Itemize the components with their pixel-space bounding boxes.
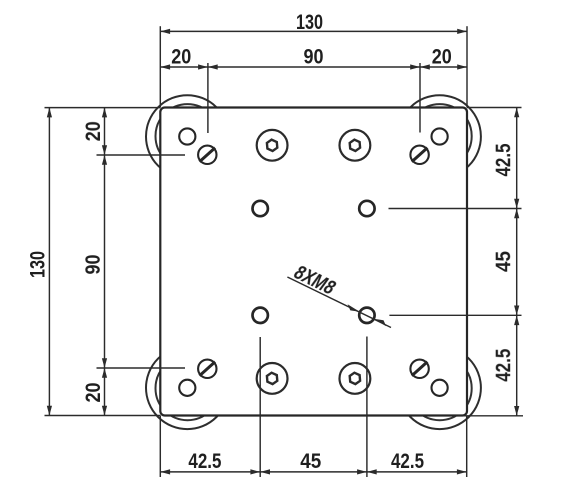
socket head screw bottom-left: [257, 363, 288, 394]
svg-text:42.5: 42.5: [492, 348, 515, 381]
extension line bottom-left corner: [159, 416, 161, 478]
leader line 8XM8: [287, 277, 391, 328]
socket head screw bottom-right: [340, 363, 371, 394]
svg-text:90: 90: [82, 255, 105, 275]
extension line bottom col 45/42.5: [366, 337, 368, 478]
extension line top-right corner: [466, 26, 468, 107]
extension line left row 20/90: [97, 154, 186, 156]
arrowheads 20/90/20 left: [102, 108, 107, 118]
extension line bottom-right corner: [466, 416, 468, 478]
extension line left bottom corner: [45, 415, 161, 417]
corner hole bottom-left: [179, 380, 195, 396]
svg-text:42.5: 42.5: [188, 450, 221, 473]
dimension line 42.5/45/42.5 right: [516, 108, 518, 416]
arrowheads 42.5/45/42.5 bottom: [160, 469, 170, 474]
extension line left row 90/20: [97, 367, 186, 369]
slotted screw bottom-left: [198, 360, 216, 378]
svg-text:45: 45: [300, 450, 321, 473]
dimension line 42.5/45/42.5 bottom: [160, 471, 466, 473]
caster wheel bottom-right: [398, 347, 481, 430]
arrowheads 20/90/20 top: [160, 64, 170, 69]
arrowheads 130 top: [160, 29, 170, 34]
svg-text:42.5: 42.5: [391, 450, 424, 473]
extension line right row 45/42.5: [389, 314, 521, 316]
extension line left top corner: [45, 107, 161, 109]
dimension line 130 top: [160, 30, 467, 32]
mounting plate body: [160, 108, 467, 416]
svg-text:20: 20: [82, 383, 105, 403]
M8 hole upper-left: [253, 201, 268, 216]
corner hole bottom-right: [432, 380, 448, 396]
M8 hole lower-left: [253, 308, 268, 323]
svg-text:130: 130: [27, 251, 50, 278]
caster wheel top-left: [146, 95, 229, 178]
extension line top col 20/90 left: [207, 63, 209, 133]
extension line right bottom: [458, 415, 523, 417]
extension line bottom col 42.5/45: [259, 337, 261, 477]
arrowheads leader 8XM8: [348, 304, 360, 311]
caster wheel top-right: [398, 95, 481, 178]
M8 hole lower-right: [359, 308, 374, 323]
svg-text:20: 20: [432, 46, 452, 69]
arrowheads 130 left: [47, 108, 52, 118]
slotted screw top-left: [198, 146, 216, 164]
corner hole top-right: [432, 128, 448, 144]
extension line right top: [467, 107, 522, 109]
extension line top col 90/20 right: [419, 63, 421, 133]
dimension line 20/90/20 left: [104, 108, 106, 416]
svg-text:90: 90: [304, 46, 324, 69]
slotted screw bottom-right: [410, 360, 428, 378]
socket head screw top-left: [257, 130, 288, 161]
svg-text:20: 20: [82, 121, 105, 141]
dimension line 20/90/20 top: [160, 66, 467, 68]
svg-text:130: 130: [296, 11, 323, 34]
arrowheads 42.5/45/42.5 right: [514, 108, 519, 118]
svg-text:42.5: 42.5: [492, 143, 515, 176]
caster wheel bottom-left: [146, 347, 229, 430]
extension line top-left corner: [159, 26, 161, 107]
socket head screw top-right: [340, 130, 371, 161]
M8 hole upper-right: [359, 201, 374, 216]
svg-text:20: 20: [171, 46, 191, 69]
slotted screw top-right: [410, 146, 428, 164]
svg-text:45: 45: [492, 251, 515, 272]
corner hole top-left: [179, 128, 195, 144]
dimension line 130 left: [48, 108, 50, 416]
extension line right row 42.5/45: [389, 208, 522, 210]
